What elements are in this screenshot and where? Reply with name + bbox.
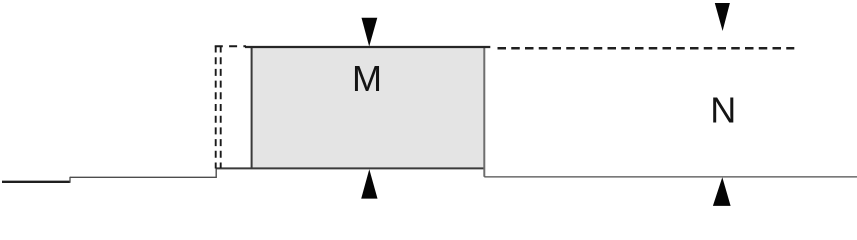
arrow up below ground line N [713, 177, 731, 206]
block M right edge [483, 47, 485, 177]
arrow up onto block M bottom [361, 169, 377, 198]
ground line left thick [2, 181, 70, 183]
arrow down onto block M top [362, 18, 378, 47]
block M body [252, 47, 485, 168]
ground step riser left [69, 177, 71, 183]
svg-text:M: M [352, 58, 382, 99]
block M left edge [251, 47, 253, 169]
block M top edge [245, 46, 490, 48]
ground step riser at block [215, 168, 217, 178]
ground line mid thin [70, 176, 216, 178]
dashed vertical line left outer [215, 46, 217, 169]
ground line right thin [484, 176, 857, 178]
block M bottom edge / ground shelf [216, 167, 485, 169]
dashed vertical line left inner [220, 46, 222, 169]
svg-text:N: N [710, 89, 736, 130]
dashed horizontal segment top-left [215, 45, 246, 47]
dashed horizontal line right (level N top) [498, 47, 795, 50]
arrow down above dashed line N [715, 3, 730, 31]
